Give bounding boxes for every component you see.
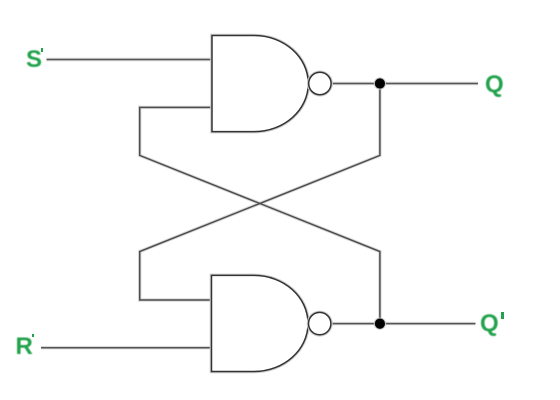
wire Q' output xyxy=(331,323,476,325)
label S prime tick xyxy=(41,48,43,53)
nand gate U1 xyxy=(212,36,308,132)
wire S' input xyxy=(47,59,213,61)
wire R' input xyxy=(41,347,212,349)
label R prime tick xyxy=(32,334,34,338)
wire Q output xyxy=(331,83,478,85)
output bubble U2 xyxy=(309,312,331,334)
label Q2 prime tick xyxy=(501,312,504,319)
label R xyxy=(16,335,33,359)
output bubble U1 xyxy=(309,72,331,94)
wire feedback from Q' to U1 input xyxy=(140,107,380,323)
junction dot Q xyxy=(374,77,386,89)
wire feedback from Q to U2 input xyxy=(140,84,380,301)
junction dot Q' xyxy=(374,318,386,330)
soft halo underlay for wires xyxy=(41,60,478,348)
label S xyxy=(26,48,42,72)
label Q xyxy=(485,73,504,97)
nand gate U2 xyxy=(212,275,309,371)
label Q2 xyxy=(480,312,499,336)
